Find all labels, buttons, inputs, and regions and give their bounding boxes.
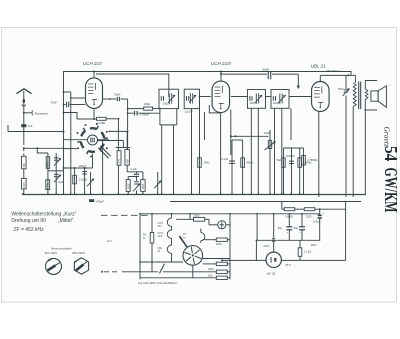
svg-text:150pF: 150pF — [250, 101, 258, 105]
svg-text:1005: 1005 — [128, 183, 131, 189]
svg-text:1nF: 1nF — [28, 124, 33, 128]
svg-text:1000: 1000 — [45, 183, 49, 189]
svg-text:50µ: 50µ — [294, 226, 299, 230]
svg-text:ZF = 452 kHz: ZF = 452 kHz — [14, 227, 45, 233]
svg-text:Drehung um 90: Drehung um 90 — [11, 218, 46, 224]
svg-text:65 V: 65 V — [286, 263, 292, 267]
svg-text:Graetz: Graetz — [383, 127, 392, 147]
svg-text:4700pF: 4700pF — [140, 113, 150, 117]
svg-text:462: 462 — [22, 163, 26, 168]
svg-text:1005: 1005 — [23, 182, 26, 188]
svg-text:UBL 21: UBL 21 — [311, 63, 326, 68]
svg-text:100pF: 100pF — [79, 164, 87, 168]
svg-text:30pF: 30pF — [58, 181, 64, 184]
svg-text:UCH 21/II: UCH 21/II — [211, 61, 232, 66]
svg-text:Ω: Ω — [143, 236, 145, 240]
svg-text:200-220V: 200-220V — [72, 251, 85, 255]
svg-text:620Ω: 620Ω — [216, 243, 222, 246]
svg-text:54: 54 — [381, 146, 400, 162]
svg-text:Wellenschalterstellung „Kurz“: Wellenschalterstellung „Kurz“ — [11, 211, 76, 217]
svg-text:5000: 5000 — [338, 88, 344, 91]
svg-text:0.2MΩ: 0.2MΩ — [97, 121, 105, 125]
svg-text:bei 110-220V Anschlußfiltern: bei 110-220V Anschlußfiltern — [138, 281, 178, 285]
svg-text:0.55MΩ: 0.55MΩ — [308, 158, 318, 162]
svg-text:50kΩ: 50kΩ — [246, 161, 253, 165]
svg-text:55Ω: 55Ω — [208, 274, 213, 277]
svg-text:1MΩ: 1MΩ — [264, 131, 270, 135]
svg-text:22nF: 22nF — [264, 244, 270, 248]
svg-text:GW/KM: GW/KM — [381, 168, 400, 213]
svg-text:5000pF: 5000pF — [286, 154, 295, 158]
svg-text:45V 50mA: 45V 50mA — [326, 69, 340, 73]
svg-text:1200: 1200 — [306, 214, 312, 218]
svg-text:5000: 5000 — [46, 161, 50, 167]
svg-text:60pF: 60pF — [114, 93, 121, 97]
svg-text:150pF: 150pF — [163, 102, 171, 106]
svg-text:0.1µF: 0.1µF — [222, 157, 229, 161]
svg-text:Rückwand: Rückwand — [35, 112, 49, 116]
svg-text:21/I: 21/I — [158, 225, 162, 228]
svg-text:50pF: 50pF — [263, 68, 270, 72]
svg-text:180Ω: 180Ω — [208, 268, 214, 271]
svg-text:0.1µF: 0.1µF — [131, 168, 138, 171]
svg-text:10kΩ: 10kΩ — [144, 102, 151, 106]
svg-text:1MΩ: 1MΩ — [204, 161, 210, 165]
svg-text:110V: 110V — [311, 243, 317, 247]
svg-text:888: 888 — [125, 159, 129, 164]
svg-text:50µ: 50µ — [278, 226, 283, 230]
svg-text:1005: 1005 — [142, 183, 145, 189]
svg-text:470pF: 470pF — [96, 200, 104, 204]
svg-text:100pF: 100pF — [273, 101, 281, 105]
svg-text:21/II: 21/II — [158, 235, 163, 238]
svg-text:Netzumschalter: Netzumschalter — [51, 247, 72, 251]
svg-text:„Mittel“: „Mittel“ — [58, 218, 74, 224]
svg-text:575: 575 — [117, 159, 121, 164]
svg-text:1,1 kΩ: 1,1 kΩ — [304, 249, 312, 253]
svg-text:UY 21: UY 21 — [267, 272, 276, 276]
svg-text:12,5nF: 12,5nF — [185, 110, 194, 114]
svg-text:110-150V: 110-150V — [45, 251, 58, 255]
svg-text:UCH 21/I: UCH 21/I — [83, 61, 102, 66]
svg-text:5kΩ: 5kΩ — [277, 158, 282, 162]
svg-text:42 V: 42 V — [107, 239, 113, 243]
svg-text:0.1MΩ: 0.1MΩ — [79, 177, 87, 181]
svg-text:47pF: 47pF — [51, 101, 58, 105]
